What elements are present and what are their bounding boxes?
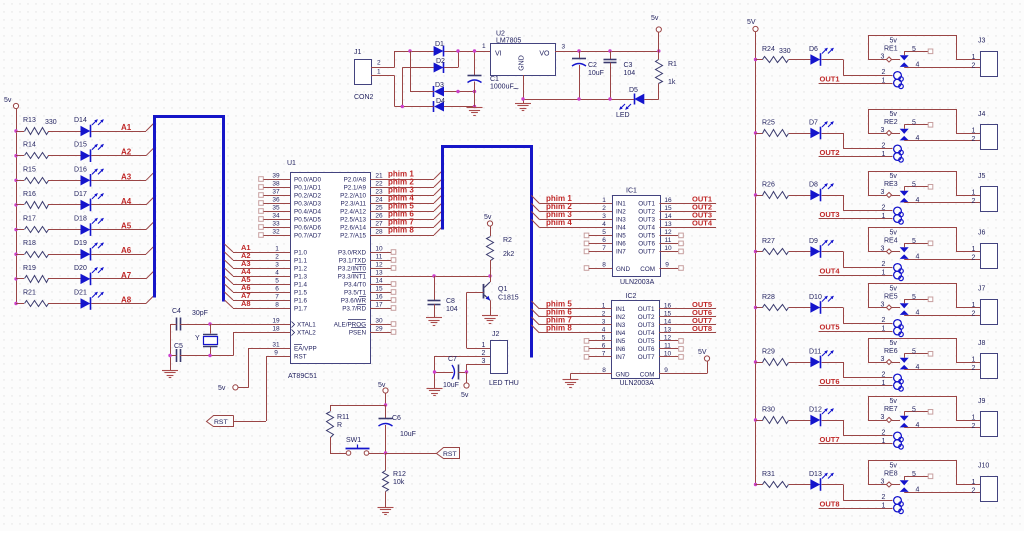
svg-text:phim 4: phim 4 xyxy=(546,218,572,227)
svg-text:4: 4 xyxy=(916,310,920,317)
svg-text:P2.4/A12: P2.4/A12 xyxy=(340,208,366,215)
LED D16 xyxy=(74,166,104,186)
svg-text:C4: C4 xyxy=(172,308,181,315)
wire relay RE4 pin 3 route to J6 pin 1 xyxy=(869,228,981,252)
wire RST tag to U1 RST pin xyxy=(234,356,267,422)
svg-text:D11: D11 xyxy=(809,349,821,356)
svg-text:22: 22 xyxy=(375,181,383,188)
node junction C7 right xyxy=(465,370,468,383)
wire relay RE5 pin 5 xyxy=(904,294,933,303)
svg-text:P0.3/AD3: P0.3/AD3 xyxy=(294,200,321,207)
svg-text:1: 1 xyxy=(972,246,976,253)
wire relay RE1 pin 5 xyxy=(904,46,933,55)
relay RE8 contact xyxy=(900,480,909,492)
svg-text:1: 1 xyxy=(972,190,976,197)
svg-text:U2: U2 xyxy=(496,31,505,38)
svg-text:D19: D19 xyxy=(74,240,87,247)
LED D8 xyxy=(809,182,834,202)
pin IC2 GND (pin 8) to ground xyxy=(571,367,612,380)
svg-text:RE8: RE8 xyxy=(884,471,898,478)
wire J1 pin2 to bridge xyxy=(371,51,395,68)
svg-text:3: 3 xyxy=(881,54,885,61)
svg-text:9: 9 xyxy=(274,350,278,357)
wire D15 to bus xyxy=(91,148,154,156)
pin IC2 IN5 (pin 5) xyxy=(584,334,626,345)
node junction rail R28 xyxy=(754,306,757,309)
svg-text:R1: R1 xyxy=(668,61,677,68)
svg-text:5v: 5v xyxy=(890,398,898,405)
svg-text:R28: R28 xyxy=(762,294,775,301)
svg-text:330: 330 xyxy=(45,119,57,126)
pin U1 PSEN (pin 29) xyxy=(349,326,396,337)
svg-text:J2: J2 xyxy=(492,331,500,338)
svg-text:2: 2 xyxy=(972,488,976,495)
svg-text:R26: R26 xyxy=(762,182,775,189)
svg-text:ULN2003A: ULN2003A xyxy=(620,279,655,286)
svg-text:1k: 1k xyxy=(668,79,676,86)
wire R16 to D17 xyxy=(48,204,81,206)
svg-text:1: 1 xyxy=(972,302,976,309)
svg-text:P3.4/T0: P3.4/T0 xyxy=(344,281,367,288)
svg-text:P3.5/T1: P3.5/T1 xyxy=(344,289,367,296)
svg-text:32: 32 xyxy=(272,229,280,236)
svg-text:IN6: IN6 xyxy=(616,241,626,248)
svg-text:1: 1 xyxy=(882,503,886,510)
wire rail to R30 xyxy=(756,420,763,422)
svg-text:RE2: RE2 xyxy=(884,119,898,126)
svg-text:3: 3 xyxy=(881,414,885,421)
pin U1 P0.1 (pin 38) xyxy=(259,181,322,192)
wire J1 pin1 to bridge xyxy=(371,76,395,107)
pin U1 P3.1 (pin 11) xyxy=(339,254,396,265)
relay RE5 coil xyxy=(884,286,903,337)
svg-text:IN6: IN6 xyxy=(616,346,626,353)
wire R25 to D7 xyxy=(789,133,811,135)
wire D18 to bus xyxy=(91,222,154,230)
capacitor C7 10uF xyxy=(435,356,467,389)
pin U1 P0.3 (pin 36) xyxy=(259,197,322,208)
wire relay RE4 pin 5 xyxy=(904,238,933,247)
bus U1 P2 to IC1 IC2 xyxy=(443,147,532,358)
wire D8 to relay coil pin 2 xyxy=(822,195,893,212)
svg-text:3: 3 xyxy=(482,358,486,365)
pin U1 P2.7 (pin 28) wire to bus xyxy=(340,227,442,239)
wire D13 to relay coil pin 2 xyxy=(822,485,893,502)
LED D19 xyxy=(74,240,104,260)
svg-text:Q1: Q1 xyxy=(498,286,507,293)
wire D2 anode xyxy=(402,68,433,107)
svg-text:104: 104 xyxy=(624,70,636,77)
wire D4 row xyxy=(395,106,475,108)
node junction 5v rail row A2 xyxy=(14,154,17,157)
svg-text:5: 5 xyxy=(912,471,916,478)
pin IC2 OUT2 (pin 15) xyxy=(638,310,716,321)
svg-text:3: 3 xyxy=(602,318,606,325)
svg-text:OUT3: OUT3 xyxy=(820,210,840,219)
LED D20 xyxy=(74,265,104,285)
node junction C1 top xyxy=(473,49,476,52)
pin IC2 IN7 (pin 7) xyxy=(584,350,626,361)
svg-text:24: 24 xyxy=(375,197,383,204)
LED D12 xyxy=(809,407,834,427)
wire rail to R31 xyxy=(756,484,763,486)
svg-text:1000uF: 1000uF xyxy=(490,84,514,91)
LED D5 xyxy=(616,87,644,119)
svg-text:GND: GND xyxy=(616,372,630,379)
pin U1 P3.2 (pin 12) xyxy=(338,262,396,273)
svg-text:J9: J9 xyxy=(978,398,986,405)
ground below C8 xyxy=(426,317,442,319)
svg-text:C1: C1 xyxy=(490,76,499,83)
svg-text:D17: D17 xyxy=(74,191,87,198)
pin IC1 COM (pin 9) xyxy=(660,262,684,271)
node junction rail R25 xyxy=(754,131,757,134)
svg-text:1: 1 xyxy=(275,246,279,253)
wire C4 C5 left to ground xyxy=(170,324,177,370)
svg-text:10: 10 xyxy=(375,246,383,253)
pin IC2 OUT7 (pin 10) xyxy=(638,350,684,361)
wire relay RE3 pin 5 xyxy=(904,182,933,191)
svg-text:1: 1 xyxy=(972,54,976,61)
svg-text:OUT4: OUT4 xyxy=(820,267,841,276)
node junction D1 anode xyxy=(408,49,411,52)
wire bridge top rail to U2 xyxy=(395,43,491,52)
svg-text:16: 16 xyxy=(375,294,383,301)
svg-text:ULN2003A: ULN2003A xyxy=(620,380,655,387)
svg-text:5v: 5v xyxy=(890,463,898,470)
svg-text:OUT2: OUT2 xyxy=(820,148,840,157)
svg-text:RST: RST xyxy=(443,451,457,458)
node junction R1 top xyxy=(657,49,660,52)
svg-text:IN7: IN7 xyxy=(616,249,626,256)
svg-text:GND: GND xyxy=(616,266,630,273)
node junction reset top xyxy=(384,403,387,406)
svg-text:OUT4: OUT4 xyxy=(638,330,655,337)
svg-text:3: 3 xyxy=(881,356,885,363)
svg-text:29: 29 xyxy=(375,326,383,333)
svg-text:1: 1 xyxy=(972,479,976,486)
pin U1 P0.0 (pin 39) xyxy=(259,173,322,184)
svg-text:D13: D13 xyxy=(809,471,822,478)
wire relay RE7 pin 3 route to J9 pin 1 xyxy=(869,397,981,421)
capacitor C3 104 xyxy=(604,51,636,99)
svg-text:P2.2/A10: P2.2/A10 xyxy=(340,192,366,199)
svg-text:A7: A7 xyxy=(121,271,132,280)
driver IC2 ULN2003A body xyxy=(612,293,660,387)
svg-text:5v: 5v xyxy=(890,340,898,347)
svg-text:R27: R27 xyxy=(762,238,775,245)
svg-text:4: 4 xyxy=(916,197,920,204)
relay RE4 contact pin 3 xyxy=(868,246,900,255)
wire relay RE1 pin 3 route to J3 pin 1 xyxy=(869,36,981,60)
relay RE7 coil xyxy=(884,398,903,449)
svg-text:36: 36 xyxy=(272,197,280,204)
svg-text:EA/VPP: EA/VPP xyxy=(294,345,317,352)
wire reset top rail xyxy=(330,405,386,407)
svg-text:15: 15 xyxy=(375,286,383,293)
power 5v terminal left xyxy=(4,97,19,109)
svg-text:5v: 5v xyxy=(461,392,469,399)
capacitor C6 10uF xyxy=(379,405,416,453)
wire relay RE6 pin 3 route to J8 pin 1 xyxy=(869,339,981,363)
svg-text:D12: D12 xyxy=(809,407,822,414)
relay RE6 contact pin 3 xyxy=(868,356,900,365)
wire D10 to relay coil pin 2 xyxy=(822,308,893,325)
svg-text:4: 4 xyxy=(916,422,920,429)
svg-text:A2: A2 xyxy=(121,148,132,157)
svg-text:1: 1 xyxy=(602,302,606,309)
svg-text:10: 10 xyxy=(664,350,672,357)
svg-text:4: 4 xyxy=(602,221,606,228)
pin IC1 OUT4 (pin 13) xyxy=(638,221,716,232)
pin U1 P3.3 (pin 13) xyxy=(338,270,490,281)
wire R29 to D11 xyxy=(789,362,811,364)
pin IC2 OUT6 (pin 11) xyxy=(638,342,684,353)
svg-text:AT89C51: AT89C51 xyxy=(288,373,317,380)
relay RE5 contact xyxy=(900,303,909,315)
svg-text:P3.2/INT0: P3.2/INT0 xyxy=(338,265,367,272)
wire relay RE5 pin 4 to J7 pin 2 xyxy=(904,310,980,317)
svg-text:C1815: C1815 xyxy=(498,295,519,302)
svg-text:R2: R2 xyxy=(503,237,512,244)
power 5V terminal relay rail xyxy=(747,19,758,32)
driver IC1 ULN2003A body xyxy=(613,188,661,287)
svg-text:P3.7/RD: P3.7/RD xyxy=(342,305,366,312)
wire rail to R27 xyxy=(756,251,763,253)
wire D17 to bus xyxy=(91,197,154,205)
svg-text:OUT5: OUT5 xyxy=(638,233,655,240)
pin U1 P2.1 (pin 22) wire to bus xyxy=(344,179,442,191)
connector J9 xyxy=(972,398,998,437)
node junction rail R31 xyxy=(754,483,757,486)
switch SW1 xyxy=(330,437,386,455)
svg-text:OUT3: OUT3 xyxy=(638,217,655,224)
svg-text:16: 16 xyxy=(664,197,672,204)
ground below U2 xyxy=(515,103,531,105)
svg-text:P0.1/AD1: P0.1/AD1 xyxy=(294,184,321,191)
svg-text:1: 1 xyxy=(882,151,886,158)
svg-text:14: 14 xyxy=(375,278,383,285)
wire R24 to D6 xyxy=(789,59,811,61)
bus left LED array to U1 port P1 xyxy=(155,117,224,302)
svg-text:3: 3 xyxy=(275,262,279,269)
wire OUT2 to relay coil pin 1 xyxy=(819,151,893,158)
ground below C4 C5 xyxy=(162,370,178,372)
svg-text:10uF: 10uF xyxy=(588,70,604,77)
svg-text:31: 31 xyxy=(272,342,280,349)
wire bus to U1 P1.6 xyxy=(225,292,291,301)
svg-text:IN2: IN2 xyxy=(616,209,626,216)
svg-text:CON2: CON2 xyxy=(354,94,374,101)
wire R18 to D19 xyxy=(48,254,81,256)
net tag RST left xyxy=(207,416,234,427)
svg-text:XTAL2: XTAL2 xyxy=(297,329,316,336)
wire 5v rail to R18 xyxy=(16,254,24,256)
wire OUT5 to relay coil pin 1 xyxy=(819,326,893,333)
svg-text:IN2: IN2 xyxy=(616,314,626,321)
svg-text:30: 30 xyxy=(375,318,383,325)
svg-text:5V: 5V xyxy=(747,19,756,26)
svg-text:C3: C3 xyxy=(624,62,633,69)
svg-text:5: 5 xyxy=(912,294,916,301)
svg-text:4: 4 xyxy=(916,487,920,494)
svg-text:15: 15 xyxy=(664,205,672,212)
wire R13 to D14 xyxy=(48,131,81,133)
relay RE6 contact xyxy=(900,358,909,370)
svg-text:IN3: IN3 xyxy=(616,217,626,224)
relay RE6 coil xyxy=(884,340,903,391)
svg-text:A3: A3 xyxy=(121,172,132,181)
pin IC2 IN6 (pin 6) xyxy=(584,342,626,353)
svg-text:IN5: IN5 xyxy=(616,338,626,345)
svg-text:2: 2 xyxy=(882,261,886,268)
svg-text:8: 8 xyxy=(602,262,606,269)
svg-text:D14: D14 xyxy=(74,117,87,124)
svg-text:OUT5: OUT5 xyxy=(638,338,655,345)
node junction crystal top xyxy=(208,322,211,325)
svg-text:2: 2 xyxy=(882,430,886,437)
svg-text:phim 8: phim 8 xyxy=(388,226,414,235)
svg-text:C8: C8 xyxy=(446,298,455,305)
relay RE7 contact pin 3 xyxy=(868,414,900,423)
pin U1 P3.0 (pin 10) xyxy=(338,246,396,257)
svg-text:7: 7 xyxy=(602,245,606,252)
node junction 5v rail row A7 xyxy=(14,277,17,280)
node junction 5v rail row A3 xyxy=(14,179,17,182)
svg-text:P3.3/INT1: P3.3/INT1 xyxy=(338,273,367,280)
svg-text:R: R xyxy=(337,422,342,429)
svg-text:21: 21 xyxy=(375,173,383,180)
svg-text:25: 25 xyxy=(375,205,383,212)
LED D18 xyxy=(74,216,104,236)
svg-text:2: 2 xyxy=(482,350,486,357)
svg-text:2: 2 xyxy=(972,255,976,262)
svg-text:LM7805: LM7805 xyxy=(496,38,521,45)
svg-text:5v: 5v xyxy=(890,38,898,45)
svg-text:8: 8 xyxy=(602,367,606,374)
svg-text:4: 4 xyxy=(602,326,606,333)
svg-text:P2.6/A14: P2.6/A14 xyxy=(340,224,366,231)
wire R14 to D15 xyxy=(48,155,81,157)
LED D14 xyxy=(74,117,104,137)
connector J6 xyxy=(972,230,998,269)
pin U1 P3.5 (pin 15) xyxy=(344,286,396,297)
wire R26 to D8 xyxy=(789,195,811,197)
svg-text:5v: 5v xyxy=(890,230,898,237)
resistor R24 xyxy=(762,46,789,63)
LED D7 xyxy=(809,120,834,140)
svg-text:J5: J5 xyxy=(978,173,986,180)
svg-text:A5: A5 xyxy=(121,222,132,231)
svg-text:2: 2 xyxy=(602,310,606,317)
connector J10 xyxy=(972,463,998,502)
diode D4 xyxy=(434,98,446,112)
wire R17 to D18 xyxy=(48,229,81,231)
svg-text:SW1: SW1 xyxy=(346,437,361,444)
svg-text:1: 1 xyxy=(972,128,976,135)
node junction D2 cathode rail xyxy=(456,49,459,52)
svg-text:3: 3 xyxy=(881,127,885,134)
svg-text:1: 1 xyxy=(972,357,976,364)
svg-text:P2.7/A15: P2.7/A15 xyxy=(340,232,366,239)
svg-text:D20: D20 xyxy=(74,265,87,272)
power 5v terminal R2 xyxy=(484,214,493,226)
svg-text:12: 12 xyxy=(664,229,672,236)
svg-text:A4: A4 xyxy=(121,197,132,206)
pin U1 P2.0 (pin 21) wire to bus xyxy=(344,171,442,183)
pin U1 XTAL1 (pin 19) xyxy=(182,318,317,329)
svg-text:5: 5 xyxy=(275,278,279,285)
pin IC1 GND (pin 8) xyxy=(584,262,612,271)
wire OUT4 to relay coil pin 1 xyxy=(819,270,893,277)
svg-text:IC2: IC2 xyxy=(626,293,637,300)
relay RE8 contact pin 3 xyxy=(868,479,900,488)
wire R21 to D21 xyxy=(48,303,81,305)
svg-text:1: 1 xyxy=(482,43,486,50)
wire OUT8 to relay coil pin 1 xyxy=(819,503,893,510)
svg-text:18: 18 xyxy=(272,326,280,333)
node junction 5v rail row A5 xyxy=(14,228,17,231)
svg-text:6: 6 xyxy=(602,237,606,244)
svg-text:OUT1: OUT1 xyxy=(638,201,655,208)
wire Q1 base to J2 pin1 xyxy=(467,293,484,349)
svg-text:RE3: RE3 xyxy=(884,181,898,188)
wire bus to U1 P1.3 xyxy=(225,268,291,277)
node junction 5v rail row A8 xyxy=(14,302,17,305)
wire D5 gnd rail xyxy=(523,99,659,101)
svg-text:RE4: RE4 xyxy=(884,238,898,245)
wire bus to U1 P1.0 xyxy=(225,244,291,253)
svg-text:R13: R13 xyxy=(23,117,36,124)
wire D14 to bus xyxy=(91,123,154,132)
capacitor C1 1000uF xyxy=(468,51,520,107)
pin U1 P2.4 (pin 25) wire to bus xyxy=(340,203,442,215)
wire relay 5V rail xyxy=(755,32,757,485)
pin IC1 OUT1 (pin 16) xyxy=(638,197,716,208)
wire R19 to D20 xyxy=(48,278,81,280)
pin IC2 OUT4 (pin 13) xyxy=(638,326,716,337)
wire bus to U1 P1.7 xyxy=(225,300,291,309)
wire 5v rail to R13 xyxy=(16,131,24,133)
svg-text:~: ~ xyxy=(513,84,519,95)
svg-text:23: 23 xyxy=(375,189,383,196)
wire relay RE8 pin 4 to J10 pin 2 xyxy=(904,487,980,494)
wire OUT1 to relay coil pin 1 xyxy=(819,78,893,85)
svg-text:5v: 5v xyxy=(890,173,898,180)
svg-text:5: 5 xyxy=(912,182,916,189)
svg-text:P1.2: P1.2 xyxy=(294,265,307,272)
svg-text:VI: VI xyxy=(495,51,502,58)
wire D6 to relay coil pin 2 xyxy=(822,60,893,77)
node junction reset net xyxy=(384,451,387,454)
svg-text:2: 2 xyxy=(882,317,886,324)
svg-text:C2: C2 xyxy=(588,62,597,69)
svg-text:2: 2 xyxy=(882,372,886,379)
wire D20 to bus xyxy=(91,271,154,279)
svg-text:P2.3/A11: P2.3/A11 xyxy=(341,200,367,207)
wire relay RE5 pin 3 route to J7 pin 1 xyxy=(869,284,981,308)
capacitor C2 10uF xyxy=(572,51,604,99)
pin IC2 IN3 (pin 3) xyxy=(531,317,625,329)
wire relay RE2 pin 5 xyxy=(904,120,933,129)
svg-text:LED: LED xyxy=(616,112,630,119)
svg-text:P0.4/AD4: P0.4/AD4 xyxy=(294,208,321,215)
svg-text:5V: 5V xyxy=(698,349,707,356)
svg-text:J8: J8 xyxy=(978,340,986,347)
wire R28 to D10 xyxy=(789,307,811,309)
wire relay RE6 pin 4 to J8 pin 2 xyxy=(904,364,980,371)
wire 5v rail to R17 xyxy=(16,229,24,231)
